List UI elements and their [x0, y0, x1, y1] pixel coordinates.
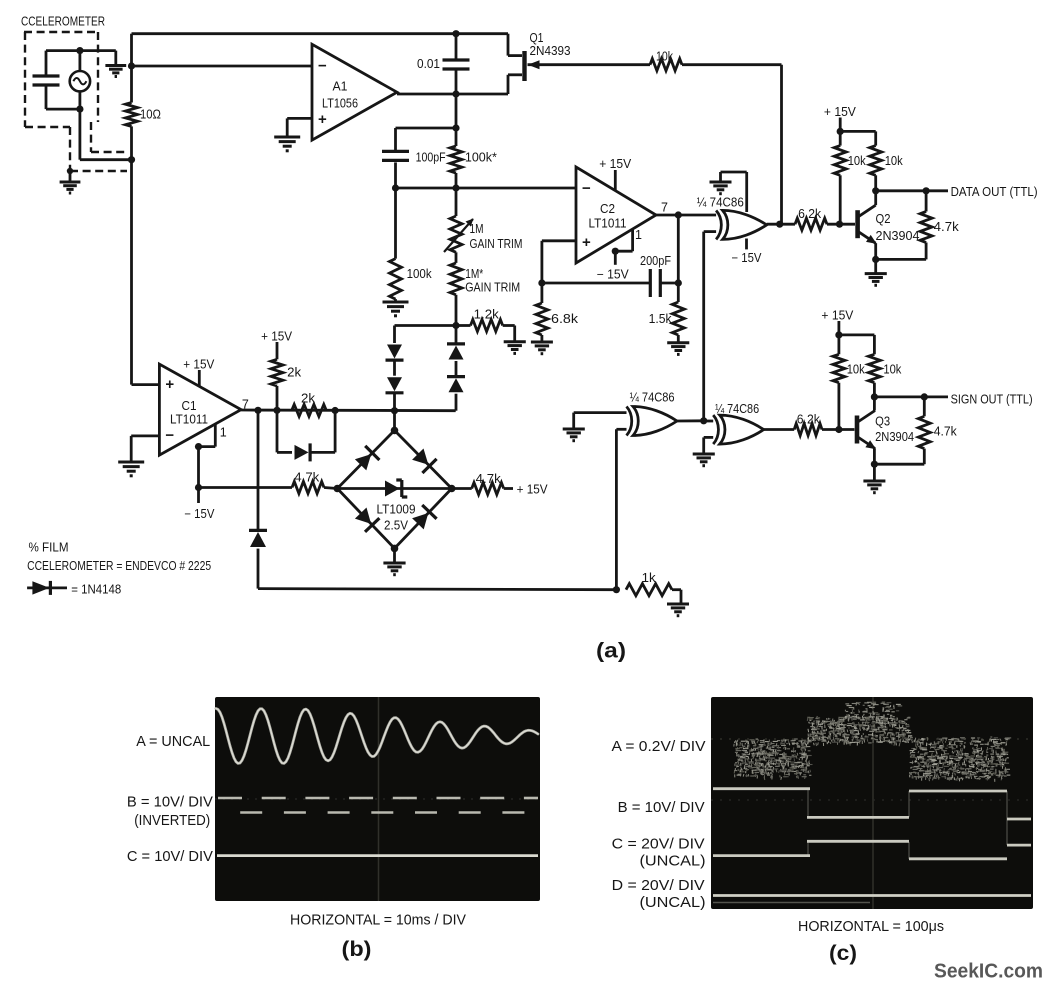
svg-text:100pF: 100pF	[416, 151, 446, 165]
svg-text:SIGN OUT (TTL): SIGN OUT (TTL)	[951, 392, 1033, 406]
svg-text:C = 10V/ DIV: C = 10V/ DIV	[127, 848, 213, 865]
svg-text:10k: 10k	[883, 363, 902, 377]
svg-text:(UNCAL): (UNCAL)	[640, 853, 706, 870]
svg-text:D = 20V/ DIV: D = 20V/ DIV	[612, 877, 705, 894]
svg-text:1M: 1M	[470, 222, 484, 236]
svg-text:4.7k: 4.7k	[934, 425, 958, 439]
svg-text:+: +	[165, 376, 174, 393]
svg-text:GAIN TRIM: GAIN TRIM	[465, 281, 520, 295]
svg-text:200pF: 200pF	[640, 254, 671, 268]
svg-text:= 1N4148: = 1N4148	[71, 583, 121, 597]
svg-text:C = 20V/ DIV: C = 20V/ DIV	[612, 836, 705, 853]
svg-text:% FILM: % FILM	[29, 540, 69, 554]
svg-text:10k: 10k	[848, 154, 867, 168]
svg-text:+ 15V: + 15V	[183, 358, 215, 372]
svg-text:C1: C1	[182, 399, 197, 413]
svg-text:B = 10V/ DIV: B = 10V/ DIV	[127, 794, 213, 811]
svg-text:+ 15V: + 15V	[261, 330, 293, 344]
svg-text:4.7k: 4.7k	[934, 220, 960, 234]
svg-text:LT1056: LT1056	[322, 96, 358, 110]
svg-text:(a): (a)	[596, 640, 626, 663]
svg-text:A = 0.2V/ DIV: A = 0.2V/ DIV	[612, 738, 706, 755]
svg-text:100k*: 100k*	[465, 151, 497, 165]
svg-text:B = 10V/ DIV: B = 10V/ DIV	[618, 799, 705, 816]
svg-text:−: −	[582, 180, 591, 197]
svg-text:4.7k: 4.7k	[294, 471, 320, 485]
svg-text:10k: 10k	[847, 363, 866, 377]
svg-text:HORIZONTAL = 100μs: HORIZONTAL = 100μs	[798, 918, 944, 935]
svg-text:DATA OUT (TTL): DATA OUT (TTL)	[951, 185, 1038, 199]
svg-text:7: 7	[661, 201, 668, 215]
svg-text:+ 15V: + 15V	[824, 105, 857, 119]
svg-text:(INVERTED): (INVERTED)	[134, 812, 210, 829]
svg-text:¼ 74C86: ¼ 74C86	[697, 196, 744, 210]
svg-text:6.2k: 6.2k	[797, 412, 821, 426]
svg-text:Q1: Q1	[530, 31, 544, 45]
svg-text:10k: 10k	[885, 154, 904, 168]
svg-text:GAIN TRIM: GAIN TRIM	[470, 237, 523, 251]
svg-text:6.2k: 6.2k	[798, 207, 822, 221]
svg-text:HORIZONTAL = 10ms / DIV: HORIZONTAL = 10ms / DIV	[290, 912, 466, 929]
svg-text:Q3: Q3	[875, 414, 890, 428]
svg-text:CCELEROMETER = ENDEVCO # 2225: CCELEROMETER = ENDEVCO # 2225	[27, 559, 211, 573]
svg-text:¼ 74C86: ¼ 74C86	[715, 402, 759, 416]
svg-text:− 15V: − 15V	[597, 267, 630, 281]
svg-text:+: +	[582, 234, 591, 251]
svg-text:LT1009: LT1009	[377, 503, 416, 517]
svg-text:2N3904: 2N3904	[876, 229, 920, 243]
svg-text:2.5V: 2.5V	[384, 518, 409, 532]
svg-text:1k: 1k	[642, 571, 657, 585]
svg-text:+ 15V: + 15V	[599, 157, 632, 171]
svg-text:LT1011: LT1011	[170, 413, 208, 427]
svg-text:2k: 2k	[301, 392, 316, 406]
svg-text:1: 1	[220, 426, 227, 440]
svg-text:+ 15V: + 15V	[517, 482, 549, 496]
svg-text:+: +	[318, 111, 327, 128]
svg-text:(c): (c)	[829, 942, 857, 965]
svg-text:(UNCAL): (UNCAL)	[640, 894, 706, 911]
svg-text:CCELEROMETER: CCELEROMETER	[21, 15, 105, 29]
svg-text:2N4393: 2N4393	[530, 44, 571, 58]
svg-text:4.7k: 4.7k	[476, 472, 502, 486]
svg-text:+ 15V: + 15V	[821, 308, 854, 322]
svg-text:−: −	[318, 57, 327, 74]
svg-text:0.01: 0.01	[417, 57, 440, 71]
svg-text:(b): (b)	[342, 938, 372, 961]
svg-text:6.8k: 6.8k	[551, 312, 579, 326]
svg-text:10k: 10k	[656, 50, 674, 64]
svg-text:1: 1	[635, 228, 642, 242]
svg-text:A = UNCAL: A = UNCAL	[136, 733, 210, 750]
svg-text:¼ 74C86: ¼ 74C86	[630, 391, 675, 405]
svg-text:LT1011: LT1011	[589, 217, 627, 231]
svg-text:−: −	[165, 427, 174, 444]
svg-text:A1: A1	[333, 80, 348, 94]
svg-text:1M*: 1M*	[465, 267, 483, 281]
svg-text:− 15V: − 15V	[184, 507, 215, 521]
svg-text:2k: 2k	[287, 366, 302, 380]
svg-text:Q2: Q2	[876, 212, 891, 226]
svg-text:SeekIC.com: SeekIC.com	[934, 961, 1043, 983]
svg-text:1.2k: 1.2k	[474, 307, 500, 321]
svg-text:2N3904: 2N3904	[875, 430, 914, 444]
svg-text:− 15V: − 15V	[732, 251, 763, 265]
svg-text:10Ω: 10Ω	[140, 107, 161, 121]
svg-text:100k: 100k	[407, 267, 433, 281]
svg-text:1.5k: 1.5k	[649, 312, 673, 326]
svg-text:C2: C2	[600, 202, 615, 216]
